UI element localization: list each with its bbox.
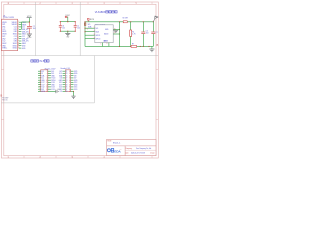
power flag VCC bar bbox=[27, 17, 32, 19]
svg-text:CC1: CC1 bbox=[14, 27, 17, 29]
ground stem bbox=[67, 31, 69, 33]
svg-text:IO22: IO22 bbox=[59, 87, 62, 89]
svg-text:TM: TM bbox=[120, 149, 122, 151]
svg-text:23: 23 bbox=[66, 73, 68, 75]
svg-text:2024-05-19 17:55:08: 2024-05-19 17:55:08 bbox=[131, 152, 145, 154]
svg-text:GND2: GND2 bbox=[12, 48, 17, 50]
connector U2 body bbox=[2, 19, 18, 51]
wire U8 left pin 2 bbox=[85, 31, 95, 33]
svg-text:VBUS2: VBUS2 bbox=[12, 24, 17, 26]
svg-text:SHELL: SHELL bbox=[2, 48, 7, 50]
junction dots lower rail bbox=[119, 46, 120, 47]
power flag stem bbox=[67, 17, 69, 22]
svg-text:3V3: 3V3 bbox=[41, 89, 44, 91]
svg-text:GPIO0: GPIO0 bbox=[96, 38, 101, 40]
svg-text:DP1: DP1 bbox=[14, 29, 17, 31]
svg-text:104: 104 bbox=[77, 27, 80, 29]
svg-text:MOSI: MOSI bbox=[41, 91, 45, 93]
P2 right pin stubs bbox=[71, 71, 74, 91]
U8 bottom pin stub A bbox=[102, 43, 104, 47]
svg-text:29: 29 bbox=[66, 80, 68, 82]
ground symbol lower rail bbox=[149, 46, 154, 51]
svg-text:GND: GND bbox=[66, 37, 69, 39]
svg-text:VBUS: VBUS bbox=[2, 34, 6, 36]
svg-text:R7: R7 bbox=[132, 43, 134, 45]
P1 left pin stubs bbox=[38, 71, 41, 91]
svg-text:PGND: PGND bbox=[28, 37, 32, 39]
border row separator ticks left and right bbox=[1, 70, 158, 120]
wire lower rail bbox=[85, 45, 153, 47]
svg-text:39: 39 bbox=[66, 91, 68, 93]
title block outline bbox=[107, 139, 156, 155]
svg-text:SCL: SCL bbox=[96, 28, 99, 30]
wire top rail of cap pair bbox=[60, 21, 75, 23]
svg-text:C6: C6 bbox=[146, 31, 148, 33]
svg-text:DP2: DP2 bbox=[14, 38, 17, 40]
svg-text:IO5: IO5 bbox=[60, 91, 63, 93]
P2 left net labels bbox=[59, 71, 63, 93]
svg-text:104: 104 bbox=[33, 28, 36, 30]
svg-text:IO17: IO17 bbox=[59, 82, 62, 84]
title block right cell row divider bbox=[125, 149, 156, 151]
section divider horizontal 1 bbox=[1, 55, 158, 57]
svg-text:IO24: IO24 bbox=[51, 89, 54, 91]
svg-text:5V: 5V bbox=[41, 73, 43, 75]
svg-text:Company:: Company: bbox=[125, 148, 132, 150]
svg-text:VBUS: VBUS bbox=[2, 22, 6, 24]
resistor R7 inline lower rail bbox=[131, 45, 137, 47]
wire C7 top stem bbox=[152, 22, 154, 32]
U8 right pin names bbox=[104, 29, 109, 42]
U8 left pin numbers bbox=[94, 27, 95, 40]
U8 left pin names bbox=[96, 28, 101, 41]
ground symbol below cap pair bbox=[65, 33, 70, 35]
P1 right pin stubs bbox=[48, 71, 51, 89]
title block row divider bbox=[107, 145, 156, 147]
svg-text:USB_DN: USB_DN bbox=[22, 41, 29, 43]
svg-text:SCL: SCL bbox=[41, 78, 44, 80]
svg-text:TITLE:: TITLE: bbox=[107, 141, 112, 143]
U2 right pin numbers bbox=[18, 21, 20, 49]
svg-text:R2 47R: R2 47R bbox=[123, 18, 129, 20]
junction dot at cap column bbox=[29, 21, 30, 22]
svg-text:SCL: SCL bbox=[59, 73, 62, 75]
header P2 body bbox=[65, 70, 70, 92]
svg-text:SBU2: SBU2 bbox=[22, 43, 26, 45]
capacitor C3 plates bbox=[59, 25, 62, 27]
svg-text:RXD0: RXD0 bbox=[51, 80, 55, 82]
wire vertical x119.5 bbox=[119, 22, 121, 47]
resistor R1 bbox=[130, 30, 132, 36]
svg-text:TYPE-C-16PIN: TYPE-C-16PIN bbox=[3, 17, 15, 19]
svg-text:GND: GND bbox=[41, 80, 44, 82]
svg-text:C2: C2 bbox=[33, 26, 35, 28]
section divider vertical 2 bbox=[79, 2, 81, 56]
junction dot GND wire bbox=[119, 29, 120, 30]
svg-text:SBU1: SBU1 bbox=[22, 34, 26, 36]
svg-text:CC2: CC2 bbox=[2, 41, 5, 43]
capacitor C3 top pin stem bbox=[59, 22, 61, 26]
svg-text:IO4: IO4 bbox=[60, 78, 63, 80]
svg-text:3V3: 3V3 bbox=[59, 71, 62, 73]
svg-text:IO8: IO8 bbox=[74, 75, 77, 77]
capacitor C7 plates bbox=[151, 31, 155, 33]
wire bottom rail of cap pair bbox=[60, 30, 75, 32]
svg-text:104: 104 bbox=[62, 27, 65, 29]
svg-text:CC1: CC1 bbox=[2, 29, 5, 31]
svg-text:IO16: IO16 bbox=[74, 87, 77, 89]
svg-text:U2: U2 bbox=[3, 15, 5, 17]
svg-text:IO20: IO20 bbox=[74, 89, 77, 91]
border column separator ticks top bbox=[24, 2, 152, 4]
net flag 3V3 red glyph bbox=[87, 18, 89, 20]
P1 right net labels bbox=[51, 71, 55, 91]
capacitor C1 plates bbox=[74, 25, 77, 27]
wire left bus vertical bbox=[84, 22, 86, 47]
wire U8 right pin to vertical bbox=[113, 33, 119, 35]
svg-text:TXD0: TXD0 bbox=[51, 78, 55, 80]
svg-text:SBU1: SBU1 bbox=[13, 34, 17, 36]
capacitor C2 top pin stem bbox=[28, 22, 30, 26]
svg-text:DP2: DP2 bbox=[2, 36, 5, 38]
svg-text:CC1: CC1 bbox=[22, 27, 25, 29]
P2 inside pin numbers bbox=[69, 71, 71, 93]
svg-text:IO27: IO27 bbox=[59, 84, 62, 86]
svg-text:31: 31 bbox=[66, 82, 68, 84]
border column separator ticks bottom bbox=[24, 156, 152, 158]
svg-text:USB_DP: USB_DP bbox=[22, 29, 28, 31]
svg-text:33: 33 bbox=[66, 84, 68, 86]
power flag VCC stem bbox=[28, 18, 30, 22]
capacitor C3 bottom pin stem bbox=[59, 27, 61, 31]
logo mark circle bbox=[107, 149, 110, 152]
svg-text:GPIO1: GPIO1 bbox=[96, 35, 101, 37]
U8 bottom pin names bbox=[103, 41, 107, 43]
capacitor C2 plates bbox=[27, 26, 32, 28]
P1 inside pin numbers bbox=[46, 71, 48, 93]
svg-text:VBUS1: VBUS1 bbox=[12, 22, 17, 24]
U2 left pin names column bbox=[2, 22, 7, 50]
junction dots top rail bbox=[60, 21, 61, 22]
header P1 body bbox=[41, 70, 48, 92]
svg-text:VL6180X: VL6180X bbox=[95, 10, 106, 14]
junction dot pin2 bbox=[84, 31, 85, 32]
svg-text:IO7: IO7 bbox=[74, 78, 77, 80]
svg-text:25: 25 bbox=[66, 75, 68, 77]
wire R1 top stem bbox=[130, 22, 132, 30]
svg-text:R1: R1 bbox=[132, 32, 134, 34]
wire C6 top stem bbox=[142, 22, 144, 32]
svg-text:3V3: 3V3 bbox=[41, 71, 44, 73]
wire U8 left pin 4 bbox=[85, 38, 95, 40]
svg-text:21: 21 bbox=[66, 71, 68, 73]
section divider vertical 3 bbox=[93, 56, 95, 103]
sheet border inner frame bbox=[4, 4, 156, 155]
svg-text:USB_DN: USB_DN bbox=[22, 31, 29, 33]
logo CJK glyph blocks bbox=[111, 149, 113, 153]
svg-text:VBUS: VBUS bbox=[22, 24, 26, 26]
junction dots bottom rail bbox=[60, 31, 61, 32]
P2 ground pin dot bbox=[73, 91, 74, 92]
capacitor C6 plates bbox=[141, 31, 145, 33]
junction dots on W1 bbox=[84, 21, 85, 22]
U8 bottom pin stub B bbox=[108, 43, 110, 47]
svg-text:C7: C7 bbox=[156, 32, 158, 34]
P1 bottom right wire bbox=[48, 90, 56, 92]
svg-text:IO25: IO25 bbox=[74, 71, 77, 73]
svg-text:SBU2: SBU2 bbox=[2, 43, 6, 45]
P2 ground stem bbox=[73, 91, 75, 96]
wire U8 left pin 1 bbox=[85, 27, 95, 29]
svg-text:IO18: IO18 bbox=[51, 82, 54, 84]
svg-text:DN1: DN1 bbox=[14, 31, 17, 33]
section divider horizontal 2 bbox=[1, 102, 94, 104]
P2 left pin stubs bbox=[63, 71, 66, 91]
IC U8 body bbox=[95, 25, 113, 43]
section divider vertical 1 bbox=[35, 2, 37, 56]
capacitor C1 top pin stem bbox=[74, 22, 76, 26]
P2 inside pin names bbox=[66, 71, 68, 93]
wire R1 bottom stem bbox=[130, 36, 132, 46]
junction dot pin1 bbox=[84, 28, 85, 29]
wire U8 right pin GND to vertical bbox=[113, 29, 119, 31]
capacitor C1 bottom pin stem bbox=[74, 27, 76, 31]
svg-text:35: 35 bbox=[66, 87, 68, 89]
svg-text:SBU1: SBU1 bbox=[2, 31, 6, 33]
power flag red glyph bbox=[65, 16, 67, 17]
svg-text:IO23: IO23 bbox=[51, 87, 54, 89]
U2 right pin names column bbox=[12, 22, 17, 50]
svg-text:B: B bbox=[1, 94, 3, 98]
ground symbol hanging under GND wire bbox=[114, 30, 119, 33]
svg-text:IO27: IO27 bbox=[41, 84, 44, 86]
P1 inside pin names bbox=[41, 71, 45, 93]
P2 right net labels bbox=[74, 71, 78, 91]
svg-text:IO22: IO22 bbox=[41, 87, 44, 89]
wire U8 left pin 3 bbox=[85, 34, 95, 36]
svg-text:DN2: DN2 bbox=[2, 38, 5, 40]
section title header interface bbox=[31, 60, 39, 62]
svg-text:104: 104 bbox=[146, 33, 149, 35]
svg-text:Sheet_1: Sheet_1 bbox=[113, 142, 121, 145]
capacitor C2 bottom pin stem bbox=[28, 28, 30, 34]
svg-text:CC2: CC2 bbox=[22, 36, 25, 38]
svg-text:C3: C3 bbox=[62, 26, 64, 28]
rotated ground at P1 wire end bbox=[56, 90, 58, 94]
svg-text:SCL: SCL bbox=[88, 24, 91, 26]
svg-text:CC2: CC2 bbox=[14, 36, 17, 38]
wire C6 bottom stem bbox=[142, 34, 144, 47]
svg-text:IO17: IO17 bbox=[41, 82, 44, 84]
svg-text:DN2: DN2 bbox=[14, 41, 17, 43]
sheet border outer frame bbox=[1, 2, 158, 158]
svg-text:5V0: 5V0 bbox=[51, 73, 54, 75]
svg-text:37: 37 bbox=[66, 89, 68, 91]
wire top rail W1 bbox=[85, 21, 153, 23]
net port red glyph bbox=[84, 23, 86, 26]
wire vertical tie of top pins bbox=[21, 22, 23, 29]
svg-text:C1: C1 bbox=[77, 26, 79, 28]
P1 left pin numbers bbox=[39, 70, 41, 92]
junction dot at vertical bbox=[119, 33, 120, 34]
wire C7 bottom stem bbox=[152, 34, 154, 47]
title block logo cell divider bbox=[124, 146, 126, 156]
ground symbol below C2 bbox=[27, 34, 32, 36]
power flag right glyph bbox=[153, 16, 158, 22]
svg-text:DN1: DN1 bbox=[2, 27, 5, 29]
net flag 3V3 stem bbox=[88, 20, 90, 22]
svg-text:B: B bbox=[157, 43, 159, 47]
svg-text:SBU2: SBU2 bbox=[13, 43, 17, 45]
svg-text:GND1: GND1 bbox=[12, 45, 17, 47]
resistor R2 inline on W1 bbox=[123, 21, 127, 23]
U2 right pin stubs bbox=[19, 22, 22, 48]
svg-text:DP1: DP1 bbox=[2, 24, 5, 26]
svg-text:27: 27 bbox=[66, 78, 68, 80]
svg-text:5V0: 5V0 bbox=[51, 71, 54, 73]
wire to VCC cap bbox=[22, 21, 30, 23]
svg-text:IO12: IO12 bbox=[74, 82, 77, 84]
U2 right net labels bbox=[22, 22, 29, 50]
svg-text:VCC: VCC bbox=[65, 15, 70, 17]
P2 ground symbol bbox=[71, 96, 75, 99]
